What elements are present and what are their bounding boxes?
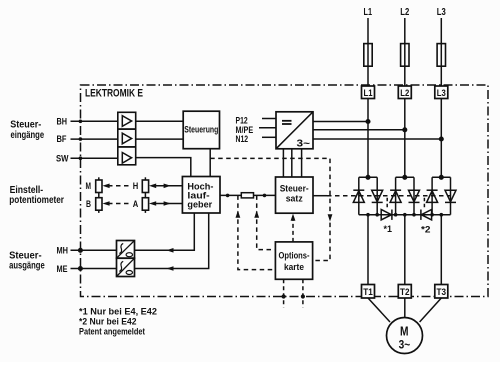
amplifier A3 (SW input buffer) [118, 147, 136, 165]
wire supply to phase L2 [313, 129, 405, 131]
wire stub N12 [262, 136, 276, 138]
wire output ME [71, 268, 117, 270]
dashed branch 2 to Optionskarte [257, 195, 276, 249]
thyristor pair phase L1 (V1 V2) [353, 176, 382, 215]
power supply block U1 (= / 3~) [276, 112, 313, 149]
junction dot ME on frame [79, 267, 83, 271]
wire Steuerung to Hochlaufgeber [209, 149, 211, 177]
svg-text:SW: SW [56, 153, 69, 164]
junction dot before Steuersatz [263, 194, 267, 198]
block Steuerung [183, 111, 219, 149]
svg-text:BF: BF [57, 134, 67, 145]
wire stub P12 [262, 118, 276, 120]
junction dot supply-L3 [440, 137, 444, 141]
junction dot stub1 on frame [282, 294, 286, 298]
junction dot supply-L2 [403, 128, 407, 132]
amplifier A2 (BF input buffer) [118, 129, 136, 147]
gate stub to bypass *1 [386, 198, 388, 209]
gate stub to bypass *2 [423, 198, 425, 209]
wire stub M/PE [259, 127, 276, 129]
wire pot A to Hochlaufgeber with arrow [155, 203, 183, 205]
wiper arrow of pot A [149, 201, 156, 206]
fuse F1 [364, 44, 372, 67]
svg-text:3~: 3~ [297, 137, 311, 149]
svg-text:3~: 3~ [399, 337, 411, 351]
svg-text:MH: MH [57, 246, 69, 257]
svg-text:H: H [133, 181, 139, 192]
svg-text:L1: L1 [364, 88, 374, 99]
svg-text:L2: L2 [400, 88, 409, 99]
junction dot stub2 on frame [301, 294, 305, 298]
wire A1 to Steuerung [136, 120, 184, 122]
svg-text:Patent angemeldet: Patent angemeldet [79, 327, 146, 338]
terminal box L2 [398, 86, 411, 99]
svg-text:*1: *1 [384, 224, 393, 235]
svg-text:eingänge: eingänge [11, 130, 45, 141]
svg-text:T2: T2 [400, 287, 410, 298]
gate wire Steuersatz to thyristors [313, 195, 327, 197]
wire input SW [71, 157, 118, 159]
wiper arrow of pot M [102, 184, 109, 189]
svg-text:Options-: Options- [279, 251, 310, 261]
junction dot on output wire [226, 194, 230, 198]
wire A3 (SW) to Hochlaufgeber bus [136, 158, 191, 177]
svg-text:T3: T3 [437, 287, 447, 298]
junction dot MH on frame [79, 249, 83, 253]
svg-text:ME: ME [57, 264, 68, 275]
motor M 3~ [387, 318, 423, 354]
dashed link pot B to pot A [108, 203, 131, 205]
wire T2 to motor [404, 298, 406, 318]
svg-text:Steuer-: Steuer- [280, 184, 309, 194]
svg-text:Steuer-: Steuer- [10, 119, 41, 130]
svg-text:L1: L1 [364, 7, 373, 18]
svg-text:T1: T1 [363, 287, 373, 298]
output converter K2 (ME) [117, 258, 135, 276]
svg-text:N12: N12 [236, 134, 249, 145]
terminal box L3 [435, 86, 448, 99]
fuse F3 [437, 44, 445, 67]
svg-text:geber: geber [187, 199, 212, 209]
block Optionskarte [275, 242, 312, 279]
potentiometer A (internal) [142, 195, 148, 213]
terminal box T1 [362, 285, 375, 299]
potentiometer B (external) [96, 195, 102, 213]
junction dot BF on frame [79, 137, 83, 141]
arrow up on branch 1 [236, 211, 241, 218]
wire output MH [71, 249, 117, 251]
wire A2 to Steuerung [136, 138, 184, 140]
block Hochlaufgeber [182, 177, 220, 214]
output converter K1 (MH) [117, 241, 135, 259]
amplifier A1 (BH input buffer) [118, 112, 136, 129]
enclosure dash-dot frame LEKTROMIK E [81, 85, 489, 297]
dashed stubs Optionskarte to bottom frame [284, 279, 303, 307]
dashed arrow Optionskarte to Steuersatz [292, 216, 294, 242]
dashed net SW to Optionskarte [210, 158, 330, 260]
terminal box L1 [362, 86, 375, 99]
svg-text:M: M [400, 324, 409, 339]
arrow down on SW-Optionskarte net [328, 214, 333, 221]
dashed branch 1 to Optionskarte [238, 195, 276, 269]
wire phase L3 drop [440, 18, 442, 177]
wire input BH [71, 120, 118, 122]
terminal box T3 [435, 285, 448, 299]
svg-text:karte: karte [284, 262, 304, 272]
junction dots bottom rail [366, 213, 443, 217]
resistor R1 (ramp) [241, 193, 253, 198]
wires supply to Steuersatz (3 pipes) [282, 149, 284, 177]
bypass thyristor *2 [421, 210, 432, 220]
wire supply to phase L3 [313, 138, 441, 140]
wire input BF [71, 138, 118, 140]
wire phase L1 drop [367, 18, 369, 177]
terminal box T2 [398, 285, 411, 299]
svg-text:*2: *2 [421, 225, 431, 236]
bypass thyristor *1 [381, 210, 392, 220]
fuse F2 [401, 44, 409, 67]
arrow up on branch 2 [254, 211, 259, 218]
arrow left on K2 feed [166, 266, 173, 271]
wire T3 drop [440, 215, 442, 285]
potentiometer M (external) [96, 177, 102, 195]
wire Hochlaufgeber output to Steuersatz [220, 194, 276, 196]
wire T3 to motor [420, 298, 442, 322]
junction dot SW on frame [79, 156, 83, 160]
svg-text:A: A [133, 199, 139, 210]
block Steuersatz [276, 177, 314, 213]
wire phase L2 drop [404, 18, 406, 177]
svg-text:BH: BH [57, 116, 68, 127]
svg-text:M: M [86, 181, 92, 192]
DC symbol in power supply [282, 121, 292, 124]
svg-text:Steuerung: Steuerung [184, 125, 218, 135]
wire Hochlaufgeber to K2 [135, 213, 209, 269]
wire T1 drop [367, 215, 369, 285]
wire pot H to Hochlaufgeber with arrow [155, 185, 183, 187]
wire Hochlaufgeber to K1 [135, 213, 195, 250]
wire supply to phase L1 [313, 121, 368, 123]
svg-text:L3: L3 [437, 7, 446, 18]
thyristor pair phase L3 (V5 V6) [427, 176, 456, 215]
wiper arrow of pot B [102, 201, 109, 206]
svg-text:ausgänge: ausgänge [9, 261, 45, 272]
junction dot supply-L1 [366, 120, 370, 124]
svg-text:B: B [86, 199, 91, 210]
potentiometer H (internal) [142, 177, 148, 195]
dashed link pot M to pot H [108, 185, 131, 187]
thyristor pair phase L2 (V3 V4) [390, 176, 419, 215]
bottom rail of thyristor module [359, 214, 451, 216]
wiper arrow of pot H [149, 184, 156, 189]
svg-text:L3: L3 [437, 88, 446, 99]
junction dot BH on frame [79, 120, 83, 124]
svg-text:LEKTROMIK E: LEKTROMIK E [85, 87, 143, 99]
arrow left on K1 feed [166, 248, 173, 253]
wire T1 to motor [368, 298, 390, 322]
svg-text:satz: satz [286, 194, 303, 204]
svg-text:L2: L2 [400, 7, 409, 18]
svg-text:potentiometer: potentiometer [9, 195, 64, 206]
wire T2 drop [404, 215, 406, 285]
